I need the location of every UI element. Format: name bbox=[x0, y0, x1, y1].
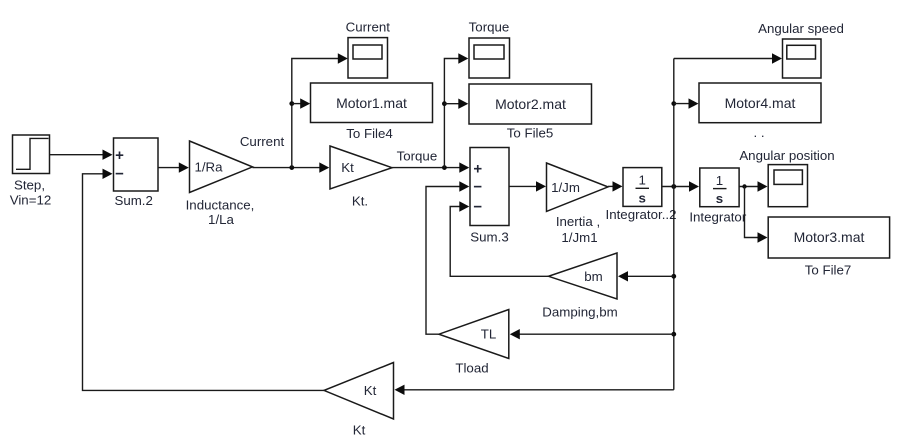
junction dot omega to TL branch bbox=[671, 332, 676, 337]
integrator block Integrator..2 bbox=[606, 168, 677, 222]
svg-text:Kt: Kt bbox=[353, 423, 366, 438]
node Current junction dot bbox=[289, 165, 294, 170]
wire Kt output to Sum.3 plus input bbox=[392, 162, 469, 172]
step source Step, Vin=12 bbox=[10, 135, 52, 208]
to-file block Motor4.mat bbox=[699, 83, 821, 140]
svg-text:TL: TL bbox=[481, 327, 497, 342]
svg-text:Kt: Kt bbox=[341, 160, 354, 175]
svg-text:Inductance,: Inductance, bbox=[186, 197, 255, 212]
wire Kt feedback output to Sum.2 minus input bbox=[83, 169, 325, 391]
wire Sum.2 output to 1/Ra input bbox=[158, 162, 189, 172]
svg-text:To File4: To File4 bbox=[346, 126, 393, 141]
svg-text:To File5: To File5 bbox=[507, 126, 554, 141]
wire 1/Ra output to Kt input bbox=[253, 162, 330, 172]
svg-text:−: − bbox=[115, 166, 124, 183]
wire 1/Jm output to Integrator..2 input bbox=[608, 181, 623, 191]
svg-text:s: s bbox=[716, 191, 723, 206]
scope Angular speed bbox=[758, 21, 844, 78]
to-file block Motor3.mat (To File7) bbox=[768, 217, 889, 278]
svg-text:Sum.3: Sum.3 bbox=[470, 230, 508, 245]
svg-text:1: 1 bbox=[716, 173, 723, 188]
wire omega to TL input bbox=[510, 329, 674, 339]
svg-text:Motor2.mat: Motor2.mat bbox=[495, 96, 566, 112]
svg-text:Motor3.mat: Motor3.mat bbox=[794, 229, 865, 245]
svg-text:Motor4.mat: Motor4.mat bbox=[725, 95, 796, 111]
svg-text:Torque: Torque bbox=[469, 20, 510, 35]
wire Current node up to Current scope bbox=[292, 53, 348, 167]
gain bm (Damping,bm) bbox=[542, 253, 617, 320]
svg-text:+: + bbox=[115, 147, 124, 164]
wire step output to Sum.2 plus input bbox=[50, 150, 113, 160]
wire Torque node up to Torque scope bbox=[444, 53, 468, 167]
svg-text:Current: Current bbox=[240, 134, 285, 149]
svg-text:+: + bbox=[473, 160, 482, 177]
svg-text:Kt.: Kt. bbox=[352, 193, 368, 208]
scope Torque bbox=[469, 20, 510, 79]
gain TL (Tload) bbox=[439, 310, 509, 376]
to-file block Motor1.mat (To File4) bbox=[311, 83, 433, 141]
wire omega top to Angular speed scope bbox=[674, 53, 782, 63]
gain Kt (torque constant) bbox=[330, 146, 392, 208]
svg-text:1/La: 1/La bbox=[208, 212, 234, 227]
junction dot theta branch bbox=[742, 184, 746, 188]
wire TL output to Sum.3 first minus input bbox=[426, 181, 469, 334]
svg-text:bm: bm bbox=[584, 269, 602, 284]
svg-text:. .: . . bbox=[753, 125, 764, 140]
gain 1/Jm (Inertia, 1/Jm1) bbox=[547, 163, 609, 245]
node omega junction dot on vertical bus bbox=[671, 184, 676, 189]
sum block Sum.3 bbox=[470, 148, 509, 245]
scope Angular position bbox=[739, 148, 834, 207]
svg-text:Integrator..2: Integrator..2 bbox=[606, 207, 677, 222]
to-file block Motor2.mat (To File5) bbox=[469, 84, 592, 141]
sum block Sum.2 bbox=[114, 138, 159, 208]
svg-text:Current: Current bbox=[346, 20, 391, 35]
label net Torque bbox=[397, 149, 438, 164]
label net Current bbox=[240, 134, 285, 149]
svg-text:Tload: Tload bbox=[455, 361, 488, 376]
integrator block Integrator bbox=[689, 168, 746, 224]
svg-text:Angular speed: Angular speed bbox=[758, 21, 844, 36]
svg-text:Kt: Kt bbox=[364, 383, 377, 398]
wire omega vertical bus bbox=[673, 59, 675, 390]
junction dot on torque riser for Motor2 branch bbox=[442, 101, 447, 106]
svg-text:Vin=12: Vin=12 bbox=[10, 193, 52, 208]
svg-text:1/Jm1: 1/Jm1 bbox=[561, 230, 597, 245]
wire omega to bm input bbox=[618, 271, 674, 281]
gain Kt feedback (back emf) bbox=[324, 363, 394, 438]
wire branch to Motor4.mat bbox=[674, 98, 699, 108]
svg-text:−: − bbox=[473, 198, 482, 215]
svg-text:Inertia ,: Inertia , bbox=[556, 214, 600, 229]
svg-text:Torque: Torque bbox=[397, 149, 438, 164]
wire bm output to Sum.3 second minus input bbox=[450, 201, 548, 276]
wire branch to Motor2.mat bbox=[444, 99, 468, 109]
wire branch down to Motor3.mat bbox=[745, 187, 768, 243]
svg-text:Step,: Step, bbox=[14, 178, 45, 193]
wire omega bottom to Kt feedback input bbox=[395, 385, 674, 395]
svg-text:Damping,bm: Damping,bm bbox=[542, 305, 617, 320]
wire Sum.3 output to 1/Jm input bbox=[509, 181, 546, 191]
wire Integrator output to Angular position scope bbox=[739, 181, 767, 191]
svg-text:1/Jm: 1/Jm bbox=[551, 180, 580, 195]
node Torque junction dot bbox=[442, 165, 447, 170]
wire branch to Motor1.mat bbox=[292, 98, 310, 108]
svg-text:1/Ra: 1/Ra bbox=[194, 160, 223, 175]
svg-text:1: 1 bbox=[638, 173, 645, 188]
scope Current bbox=[346, 20, 391, 79]
junction dot omega to bm branch bbox=[671, 274, 676, 279]
svg-text:Sum.2: Sum.2 bbox=[114, 193, 152, 208]
svg-text:Angular position: Angular position bbox=[739, 148, 834, 163]
gain U1 1/Ra (Inductance, 1/La) bbox=[186, 141, 255, 227]
svg-text:s: s bbox=[638, 191, 645, 206]
junction dot omega to Motor4 branch bbox=[671, 101, 676, 106]
svg-text:Motor1.mat: Motor1.mat bbox=[336, 95, 407, 111]
svg-text:−: − bbox=[473, 178, 482, 195]
svg-text:Integrator: Integrator bbox=[689, 209, 746, 224]
wire Integrator..2 output to Integrator input bbox=[662, 181, 699, 191]
junction dot on current riser for Motor1 branch bbox=[289, 101, 294, 106]
svg-text:To File7: To File7 bbox=[805, 263, 852, 278]
